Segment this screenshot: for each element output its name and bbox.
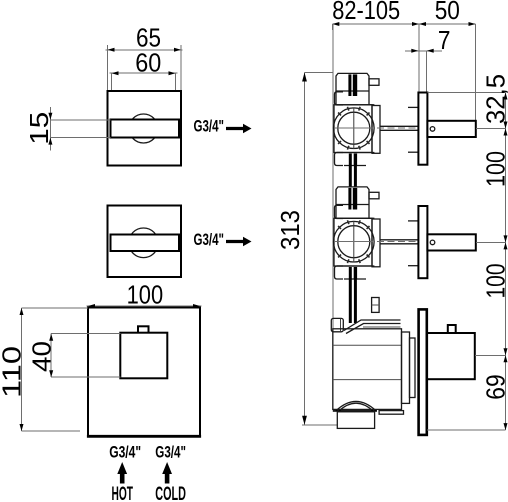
- cap slots C2: [348, 188, 351, 210]
- handle square S3: [120, 333, 167, 379]
- dimension 40 line: [49, 334, 120, 378]
- hot inlet arrow: [117, 462, 127, 484]
- bonnet stem C2: [380, 239, 418, 241]
- svg-text:32,5: 32,5: [481, 74, 508, 124]
- cartridge unit 1: [334, 73, 476, 165]
- dimension 313 line: [302, 73, 337, 425]
- svg-text:G3/4": G3/4": [155, 443, 186, 462]
- left ear C2: [335, 205, 344, 218]
- valve circle C2 outer: [334, 221, 375, 262]
- valve circle C2 inner: [338, 226, 370, 258]
- right block C2: [372, 219, 380, 267]
- body left edge line: [332, 24, 334, 410]
- bottom neck C1: [344, 165, 366, 167]
- square plate S3: [88, 308, 200, 437]
- right step A: [402, 332, 410, 403]
- connecting pipe 2-3: [349, 267, 379, 323]
- top bevel: [344, 320, 401, 331]
- bottom ear C2: [335, 266, 344, 279]
- right tab C2: [369, 192, 379, 199]
- svg-text:HOT: HOT: [112, 484, 134, 502]
- outlet arch: [336, 401, 376, 410]
- temp button tab S3: [138, 326, 149, 333]
- svg-text:15: 15: [24, 112, 54, 145]
- svg-text:40: 40: [27, 341, 57, 372]
- shoulder line C1: [337, 104, 375, 106]
- svg-text:G3/4": G3/4": [194, 230, 225, 249]
- thermostat main block: [333, 329, 402, 410]
- handle bar S1: [111, 120, 180, 138]
- svg-text:G3/4": G3/4": [194, 117, 225, 136]
- cartridge cap C1: [336, 73, 369, 104]
- bottom outlet pipe: [337, 412, 374, 429]
- circle axis C2: [353, 221, 355, 263]
- wall flange F1: [418, 93, 427, 165]
- svg-text:69: 69: [481, 374, 508, 399]
- dimension 15 leader lines: [48, 107, 110, 151]
- arch base line: [333, 410, 377, 412]
- svg-text:100: 100: [481, 151, 508, 187]
- ring segments C1: [338, 107, 369, 150]
- svg-text:82-105: 82-105: [332, 0, 400, 25]
- dimension 110 line: [20, 308, 89, 431]
- cartridge block C2: [334, 218, 372, 266]
- svg-text:110: 110: [0, 346, 27, 398]
- dimension 100 line: [87, 304, 202, 308]
- handle H2: [427, 234, 475, 250]
- right block C1: [372, 106, 380, 154]
- body section line b: [333, 379, 402, 381]
- svg-text:50: 50: [435, 0, 460, 25]
- knob circle S1: [129, 114, 158, 143]
- right foot: [379, 411, 403, 415]
- left ear C1: [335, 92, 344, 105]
- dimension 7 line: [405, 49, 442, 92]
- connecting pipe 1-2: [349, 154, 357, 188]
- cartridge cap C2: [336, 187, 369, 218]
- top dimension line: [332, 22, 475, 121]
- handle screw H2: [430, 240, 435, 245]
- square plate S1: [108, 91, 182, 166]
- flow arrow S1: [226, 124, 252, 134]
- bottom shoulder C2: [337, 265, 375, 267]
- circle axis C1: [353, 108, 355, 150]
- handle screw H1: [430, 127, 435, 132]
- left knob: [331, 318, 343, 331]
- wall flange F2: [418, 206, 427, 278]
- square plate S2: [108, 206, 182, 278]
- handle tab H3: [448, 325, 456, 333]
- dimension 65 line: [106, 45, 183, 90]
- bottom shoulder C1: [337, 152, 375, 154]
- valve circle C1 outer: [334, 108, 375, 149]
- body section line a: [333, 344, 402, 346]
- handle bar S2: [111, 235, 180, 252]
- thermostat body: [331, 309, 475, 435]
- flow arrow S2: [226, 237, 252, 247]
- bottom neck C2: [344, 278, 366, 280]
- shoulder line C2: [337, 217, 375, 219]
- svg-text:100: 100: [481, 264, 508, 299]
- bottom ear C1: [335, 153, 344, 166]
- right step B: [410, 338, 416, 398]
- svg-text:100: 100: [127, 280, 164, 310]
- ring segments C2: [338, 220, 369, 263]
- wall flange F3: [419, 309, 427, 435]
- bonnet stem C1: [380, 125, 418, 127]
- handle H1: [427, 121, 475, 137]
- cartridge unit 2: [334, 187, 476, 279]
- cold inlet arrow: [162, 462, 172, 484]
- handle block H3: [427, 333, 475, 379]
- dimension 60 line: [110, 71, 178, 90]
- svg-text:G3/4": G3/4": [109, 443, 141, 462]
- svg-text:COLD: COLD: [155, 484, 186, 502]
- valve circle C1 inner: [338, 112, 370, 144]
- right tab C1: [369, 79, 379, 86]
- cartridge block C1: [334, 105, 372, 153]
- knob circle S2: [129, 228, 159, 258]
- svg-text:313: 313: [275, 210, 305, 250]
- right dimension column: [427, 93, 508, 431]
- cap slots C1: [348, 74, 351, 96]
- pipe fitting right: [372, 298, 380, 313]
